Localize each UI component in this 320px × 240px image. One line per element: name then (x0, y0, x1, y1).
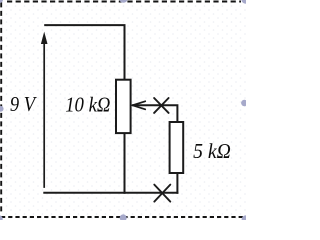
voltage source V1 9 V (arrow symbol) (41, 32, 48, 188)
potentiometer wiper arrowhead (133, 101, 146, 109)
wire: wiper lead to R2 top (133, 105, 177, 122)
wire: bottom rail up to R2 bottom (176, 173, 178, 193)
wire: top rail from source to potentiometer top (45, 25, 124, 80)
svg-text:10 kΩ: 10 kΩ (65, 93, 110, 117)
wire: potentiometer bottom to bottom rail (124, 133, 126, 193)
terminal X on bottom rail (154, 185, 170, 202)
terminal X on wiper lead (154, 98, 169, 113)
potentiometer R1 body (10 kΩ) (116, 80, 131, 133)
svg-text:5 kΩ: 5 kΩ (193, 139, 231, 163)
wire: bottom rail (44, 192, 177, 194)
svg-text:9 V: 9 V (10, 92, 37, 116)
resistor R2 (5 kΩ) (170, 122, 184, 173)
